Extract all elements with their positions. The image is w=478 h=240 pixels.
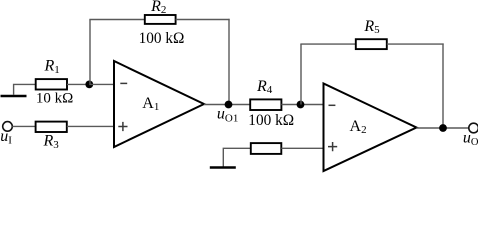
node C (junction dot at A2 inverting input) xyxy=(297,101,305,109)
wire: R1 to node A xyxy=(67,83,89,85)
resistor R4 xyxy=(250,99,281,110)
resistor R6 (unlabeled, A2 + input to ground) xyxy=(251,143,281,154)
wire: R4 to A2 inverting input xyxy=(281,104,324,106)
wire: R6 to A2 non-inverting input xyxy=(281,147,324,149)
wire: loop2 top left segment xyxy=(300,43,355,45)
op-amp A2 xyxy=(324,84,417,172)
input terminal u_I xyxy=(3,122,13,132)
resistor R3 xyxy=(36,122,67,132)
wire: R5 to loop2 right vertical xyxy=(387,43,444,45)
wire: loop2 right vertical down to node D xyxy=(442,43,444,128)
A1 inverting input minus sign xyxy=(120,82,127,84)
wire: feedback vertical from node C up xyxy=(300,44,302,104)
ground GND2 (middle) xyxy=(210,166,236,169)
svg-text:100 kΩ: 100 kΩ xyxy=(248,112,294,129)
node D (junction dot at A2 output) xyxy=(439,124,447,132)
wire: GND1 up to R1 row xyxy=(14,84,36,95)
node B (junction dot at A1 output) xyxy=(225,101,233,109)
op-amp A1 xyxy=(114,61,204,147)
wire: A2 output to u_O terminal xyxy=(417,127,469,129)
A2 inverting input minus sign xyxy=(329,104,336,106)
wire: loop1 top left segment xyxy=(89,19,144,21)
wire: R3 to A1 non-inverting input xyxy=(67,125,115,127)
svg-text:10 kΩ: 10 kΩ xyxy=(36,91,73,107)
wire: node A to A1 inverting input xyxy=(89,83,114,85)
wire: A1 output to R4 xyxy=(204,104,250,106)
wire: loop1 right vertical down to node B xyxy=(228,19,230,105)
output terminal u_O xyxy=(469,123,478,133)
resistor R1 xyxy=(36,79,67,89)
wire: ground resistor row to A2 non-inverting input xyxy=(223,148,251,167)
wire: R2 to loop1 right vertical xyxy=(176,19,230,21)
wire: feedback vertical from node A up xyxy=(89,20,91,85)
resistor R5 xyxy=(356,39,387,49)
A2 non-inverting input plus sign xyxy=(328,142,337,151)
A1 non-inverting input plus sign xyxy=(118,122,127,131)
svg-text:100 kΩ: 100 kΩ xyxy=(139,30,185,47)
wire: u_I terminal to R3 xyxy=(12,125,35,127)
node A (junction dot) xyxy=(85,81,93,89)
ground GND1 (left) xyxy=(1,95,27,98)
resistor R2 xyxy=(145,15,176,24)
